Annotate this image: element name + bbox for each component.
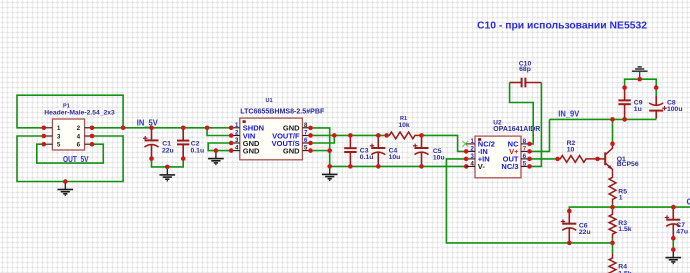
filter dots — [348, 133, 468, 169]
R2 dots — [555, 157, 600, 162]
U2 left dots — [464, 149, 469, 161]
svg-text:GND: GND — [283, 146, 300, 155]
wire OUT_5V loop — [37, 144, 104, 163]
capacitor C1 — [151, 128, 153, 141]
svg-text:100u: 100u — [667, 106, 683, 113]
connector P1 box — [52, 119, 84, 150]
P1 pin stubs — [44, 128, 92, 144]
U2 pin stubs — [465, 144, 529, 167]
capacitor C6 — [568, 211, 570, 224]
svg-text:10k: 10k — [398, 122, 410, 129]
wire VOUT/F out — [311, 134, 387, 136]
U1 pin stubs — [231, 128, 310, 151]
svg-text:68p: 68p — [519, 66, 531, 73]
ground C7 — [666, 250, 682, 264]
R5 bottom link — [612, 204, 614, 207]
svg-text:4: 4 — [77, 133, 81, 140]
output dots — [567, 205, 676, 252]
U1 right dots — [308, 126, 336, 169]
capacitor C10 — [510, 82, 522, 84]
wire U1 gnd pins — [208, 143, 231, 151]
top right dots — [622, 77, 658, 122]
R4 top link — [612, 243, 614, 254]
wire GND rail bottom — [330, 165, 467, 167]
resistor R2 — [558, 156, 598, 163]
wire IN_9V rail — [550, 118, 657, 120]
transistor Q1 — [598, 144, 613, 173]
svg-text:LTC6655BHMS8-2.5#PBF: LTC6655BHMS8-2.5#PBF — [240, 107, 324, 116]
resistor R1 — [387, 132, 422, 139]
svg-text:V-: V- — [478, 162, 486, 171]
U1 left dots — [214, 126, 234, 153]
capacitor C5 — [421, 135, 423, 148]
svg-text:2: 2 — [77, 125, 81, 132]
svg-text:47u: 47u — [676, 228, 688, 235]
svg-text:GND: GND — [243, 146, 260, 155]
wire V+ to IN_9V — [530, 119, 550, 151]
branch dots — [205, 126, 210, 131]
P1 pin numbers — [57, 125, 81, 148]
C1 C2 dots — [149, 126, 185, 170]
capacitor C3 — [349, 135, 351, 148]
wire Q1 collector up — [612, 119, 614, 143]
svg-text:IN_9V: IN_9V — [558, 110, 580, 119]
svg-text:U1: U1 — [265, 98, 272, 104]
svg-text:0.1u: 0.1u — [191, 147, 205, 154]
wire IN_5V loop over P1 — [17, 95, 123, 128]
svg-text:R1: R1 — [400, 116, 407, 122]
wire C7 to ground — [672, 238, 674, 249]
capacitor C2 — [182, 128, 184, 141]
svg-text:10u: 10u — [389, 154, 401, 161]
capacitor C9 — [624, 88, 626, 101]
wire OUT to R2 — [530, 158, 558, 160]
U2 right dots — [527, 142, 532, 169]
svg-text:1: 1 — [619, 194, 623, 201]
P1 pin dots — [42, 126, 126, 184]
capacitor C7 — [672, 207, 674, 220]
R3 bottom link — [612, 239, 614, 243]
ground mid rail — [322, 166, 338, 180]
ground P1 — [58, 182, 74, 196]
wire C1 C2 ground link — [152, 159, 184, 167]
svg-text:0.1u: 0.1u — [360, 154, 374, 161]
ground U1 — [208, 151, 224, 165]
svg-text:Header-Male-2.54_2x3: Header-Male-2.54_2x3 — [44, 110, 115, 117]
svg-text:R4: R4 — [618, 264, 627, 271]
ground C1C2 — [160, 167, 176, 181]
wire +IN feedback — [446, 159, 612, 243]
resistor R3 — [609, 210, 616, 239]
Q1 dots — [610, 117, 615, 146]
svg-text:C10 - при использовании NE5532: C10 - при использовании NE5532 — [477, 21, 647, 32]
ground top inverted — [632, 67, 648, 79]
svg-text:10u: 10u — [433, 155, 445, 162]
svg-text:3: 3 — [57, 133, 61, 140]
U1 pin names and numbers — [235, 123, 308, 155]
svg-text:1.5k: 1.5k — [618, 226, 631, 233]
capacitor C4 — [377, 135, 379, 148]
wire GND loop under P1 — [17, 136, 123, 182]
wire C10 right to pin5 — [530, 83, 542, 167]
wire IN_5V main — [92, 127, 231, 129]
svg-text:OUT_9V: OUT_9V — [687, 198, 690, 207]
resistor R4 — [609, 254, 616, 273]
U2 pin names and numbers — [471, 139, 527, 171]
svg-text:1: 1 — [57, 125, 61, 132]
wire top gnd loop — [625, 79, 657, 96]
svg-text:22u: 22u — [162, 147, 174, 154]
wire VOUT/S join — [311, 135, 335, 143]
no-connect X on U2 pin1 — [462, 141, 468, 147]
svg-text:NC/3: NC/3 — [501, 162, 518, 171]
svg-text:10: 10 — [567, 147, 575, 154]
resistor R5 — [609, 173, 616, 204]
wire output rail — [569, 207, 690, 211]
svg-text:5: 5 — [57, 142, 61, 149]
svg-text:22u: 22u — [579, 229, 591, 236]
R3 top link — [612, 207, 614, 210]
svg-text:BCP56: BCP56 — [617, 161, 639, 168]
wire U1 pin5 gnd — [311, 150, 330, 152]
svg-text:6: 6 — [77, 142, 81, 149]
svg-text:OUT_5V: OUT_5V — [63, 155, 89, 164]
op-amp U2 box — [475, 136, 521, 178]
regulator U1 box — [240, 118, 303, 160]
wire C10 left to pin8 — [510, 83, 534, 144]
wire SHDN-VIN branch — [207, 128, 231, 136]
svg-text:IN_5V: IN_5V — [137, 119, 159, 128]
wire U1 pin8 gnd down — [311, 128, 330, 166]
capacitor C8 — [655, 96, 657, 105]
wire R1 to -IN — [422, 135, 467, 151]
svg-text:1u: 1u — [634, 106, 642, 113]
